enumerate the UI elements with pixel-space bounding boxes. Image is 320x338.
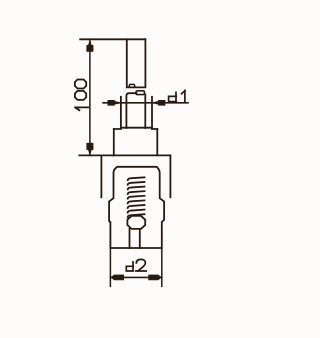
dimension line 100 — [89, 39, 91, 155]
label d2 — [126, 259, 146, 271]
ball — [127, 216, 145, 229]
digit 1 of d1 — [182, 91, 186, 103]
d2 extension line right — [161, 248, 163, 286]
probe tube top line with extension to dimension — [80, 38, 145, 40]
arrow top of 100 — [87, 40, 93, 51]
arrow left of d2 (points left) — [111, 275, 124, 280]
probe tube body — [127, 39, 146, 87]
housing outer side right — [169, 155, 171, 197]
digit 0 top of 100 — [75, 80, 86, 89]
socket flange bottom — [121, 127, 152, 129]
envelope outline — [109, 167, 164, 248]
tube bottom bump — [129, 84, 135, 87]
letter d of d1 — [169, 92, 177, 101]
spring coil — [128, 177, 145, 217]
housing outer side left — [100, 155, 102, 197]
label d1 — [169, 91, 185, 103]
capsule body — [126, 93, 136, 128]
label 100 (rotated) — [75, 80, 88, 111]
digit 1 of 100 — [75, 107, 88, 110]
shoulder line with extension to dimension — [79, 154, 170, 156]
arrow left of d1 (blob with tip at extension line) — [108, 100, 121, 105]
dimension line d2 — [110, 276, 161, 278]
digit 0 mid of 100 — [75, 91, 86, 100]
socket flange right — [151, 97, 153, 128]
dimension line d1 — [103, 102, 188, 104]
letter d of d2 — [126, 262, 133, 271]
arrow bottom of 100 — [87, 143, 93, 155]
stem — [130, 229, 140, 248]
digit 2 of d2 — [136, 259, 146, 271]
arrow right of d2 (points right) — [149, 275, 162, 280]
capsule exhaust nub — [136, 91, 145, 95]
arrow right of d1 (blob with tip at extension line) — [152, 100, 165, 105]
neck top stubs — [114, 128, 158, 130]
neck sides — [114, 129, 158, 155]
d2 extension line left — [109, 248, 111, 286]
capsule right side — [144, 95, 146, 128]
socket flange left — [120, 97, 122, 128]
